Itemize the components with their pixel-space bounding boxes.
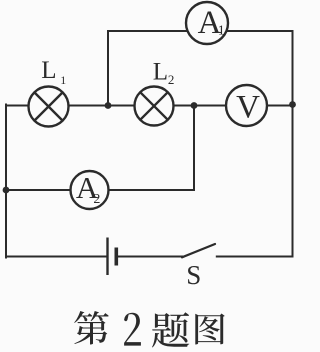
wire (118, 256, 182, 258)
node junction dot left (3, 187, 10, 194)
node junction dot right (289, 101, 296, 108)
caption char 第 (74, 311, 109, 345)
wire (5, 105, 7, 258)
wire (108, 31, 293, 105)
battery B (108, 238, 117, 276)
svg-text:2: 2 (93, 192, 100, 207)
svg-text:2: 2 (168, 72, 175, 87)
svg-text:V: V (236, 90, 260, 126)
wire (6, 256, 108, 258)
lamp L1 (29, 87, 69, 127)
svg-text:S: S (186, 260, 201, 290)
lamp L2 (135, 87, 174, 126)
switch S (182, 244, 215, 257)
node junction dot top-left branch (105, 102, 112, 109)
wire (217, 256, 293, 258)
node junction dot between L2 and V (191, 102, 198, 109)
wire (6, 105, 293, 107)
svg-text:1: 1 (218, 24, 225, 39)
caption char 2 (124, 313, 141, 346)
voltmeter V (226, 85, 267, 126)
wire (292, 31, 294, 257)
svg-text:L: L (41, 57, 56, 84)
caption char 题 (152, 312, 189, 347)
ammeter A2 (71, 170, 109, 209)
ammeter A1 (186, 2, 228, 44)
wire (6, 106, 194, 191)
svg-text:L: L (153, 59, 168, 86)
svg-text:1: 1 (60, 73, 66, 87)
caption char 图 (195, 314, 224, 345)
